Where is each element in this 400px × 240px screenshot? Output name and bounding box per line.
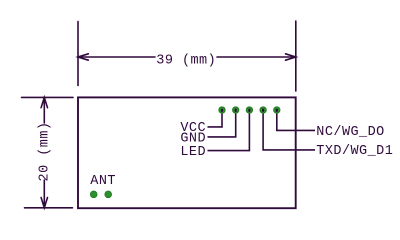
dimension 39mm line right segment (217, 56, 296, 58)
module body outline (78, 97, 296, 208)
svg-text:20 (mm): 20 (mm) (37, 122, 52, 182)
dimension 20mm top extension line (22, 96, 74, 98)
dimension 20mm bottom extension line (25, 207, 73, 209)
wire pin4 to TXD/WG_D1 (263, 110, 315, 150)
dimension 39mm right extension line (295, 21, 297, 91)
svg-text:39 (mm): 39 (mm) (156, 53, 216, 68)
pin 4 wire end dot (262, 109, 264, 112)
dimension 39mm right arrowhead (286, 54, 296, 60)
pin 2 pad (233, 107, 239, 113)
ANT pad 2 (105, 191, 112, 198)
pin 1 wire end dot (221, 109, 223, 112)
svg-text:NC/WG_DO: NC/WG_DO (316, 125, 384, 140)
ANT pad 1 (90, 191, 97, 198)
wire pin3 to LED (208, 110, 250, 151)
pin 5 pad (274, 107, 280, 113)
wire pin1 to VCC (208, 110, 223, 127)
pin 5 wire end dot (276, 109, 278, 112)
pin 4 pad (260, 107, 266, 113)
pin 1 pad (219, 107, 225, 113)
dimension 39mm left extension line (77, 22, 79, 86)
dimension 20mm down arrowhead (41, 198, 47, 208)
dimension 39mm left arrowhead (78, 54, 88, 60)
pin 3 wire end dot (248, 109, 250, 112)
svg-text:LED: LED (180, 145, 206, 160)
svg-text:TXD/WG_D1: TXD/WG_D1 (316, 144, 393, 159)
dimension 20mm line upper segment (43, 97, 45, 123)
pin 3 pad (246, 107, 252, 113)
wire pin5 to NC/WG_DO (277, 110, 315, 130)
dimension 20mm up arrowhead (41, 97, 47, 107)
svg-text:ANT: ANT (90, 174, 116, 189)
wire pin2 to GND (208, 110, 236, 137)
svg-text:GND: GND (180, 131, 206, 146)
pin 2 wire end dot (235, 109, 237, 112)
dimension 39mm line left segment (78, 56, 155, 58)
dimension 20mm line lower segment (43, 180, 45, 208)
